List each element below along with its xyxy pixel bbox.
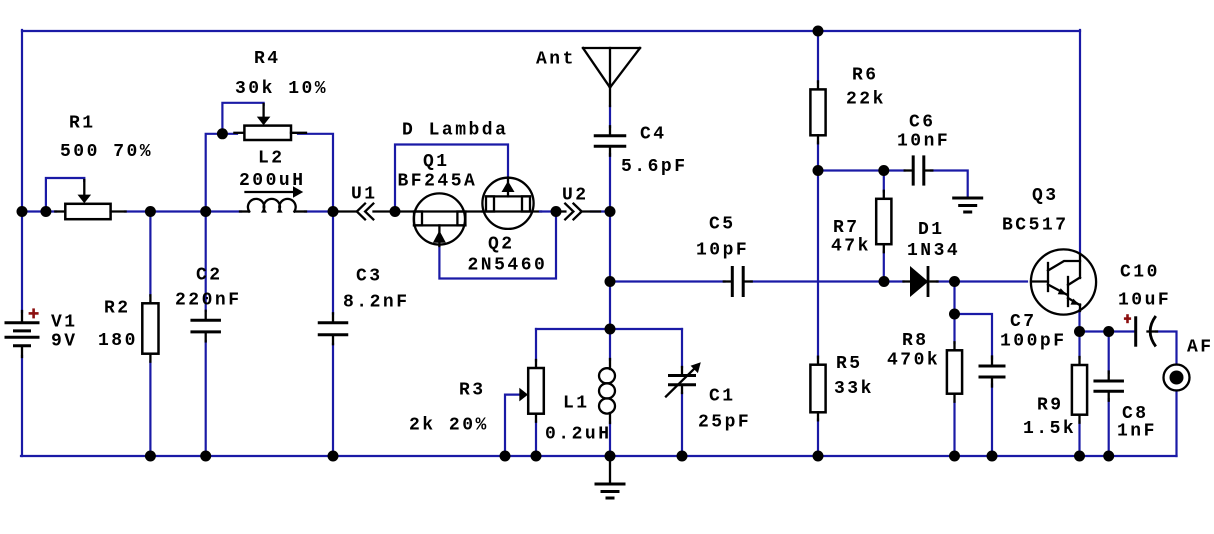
svg-text:200uH: 200uH: [239, 171, 306, 191]
wire left rail upper (V1 positive feed): [21, 30, 23, 312]
ground (L1/tank): [595, 456, 626, 498]
wire C8 bottom leg: [1108, 399, 1110, 456]
junction D1 cathode node: [949, 276, 960, 287]
resistor R7 body: [876, 191, 891, 252]
junction Q3 emitter / R9 node: [1074, 326, 1085, 337]
transistor Q2 2N5460 (P-JFET) circle: [482, 178, 533, 229]
transistor Q1 source arrow: [433, 225, 446, 246]
wire R3 wiper leg: [505, 395, 520, 456]
battery V1 plus polarity mark: [29, 308, 39, 318]
connector U1 leads: [335, 210, 395, 212]
svg-text:10nF: 10nF: [897, 132, 950, 152]
wire right rail to Q3 collector: [1079, 30, 1081, 254]
junction R2 top node: [145, 206, 156, 217]
wire C6 row from R6/R7 node: [818, 169, 905, 171]
potentiometer R1 wiper arrow: [78, 180, 92, 203]
wire R9 bottom leg: [1078, 422, 1080, 457]
wire C2 branch top: [205, 212, 207, 312]
wire tank node row R3-L1-C1: [536, 328, 682, 330]
junction bus / C8: [1103, 451, 1114, 462]
svg-text:25pF: 25pF: [698, 413, 751, 433]
transistor Q3 base lead: [1031, 280, 1048, 282]
svg-text:470k: 470k: [887, 351, 940, 371]
junction bus / C3: [328, 451, 339, 462]
junction bus / C7: [987, 451, 998, 462]
svg-text:R7: R7: [833, 218, 860, 238]
svg-text:C4: C4: [640, 125, 667, 145]
svg-text:10pF: 10pF: [696, 241, 749, 261]
wire C7 branch: [955, 314, 993, 359]
wire left rail lower (V1 negative to ground bus): [21, 356, 23, 456]
diode D1 1N34: [904, 266, 938, 297]
capacitor C4 plates: [594, 126, 627, 155]
wire bottom ground bus: [21, 455, 1177, 457]
svg-text:33k: 33k: [834, 379, 874, 399]
wire R8 bottom leg: [953, 402, 955, 457]
transistor Q2 gate arrow: [502, 178, 515, 197]
inductor L2 coil: [240, 199, 306, 212]
svg-text:L1: L1: [563, 394, 590, 414]
svg-text:1N34: 1N34: [907, 241, 960, 261]
capacitor C1 adjustment arrow: [666, 362, 701, 396]
wire R4 wiper loop: [222, 103, 263, 134]
wire C6 right lead to ground: [931, 171, 968, 197]
connector AF output jack: [1164, 365, 1190, 391]
junction bus / C1: [677, 451, 688, 462]
wire C10 to AF jack: [1156, 332, 1177, 365]
wire L1 bottom lead: [609, 423, 611, 457]
wire R9 top leg: [1078, 332, 1080, 358]
svg-text:10uF: 10uF: [1118, 291, 1171, 311]
resistor R2 body: [142, 295, 158, 361]
wire R2 branch top: [149, 212, 151, 296]
junction C5 tap node: [605, 276, 616, 287]
wire R4 right leg to main row: [298, 134, 333, 212]
junction antenna/main row node: [605, 206, 616, 217]
junction left rail / main row: [17, 206, 28, 217]
svg-text:U2: U2: [562, 186, 589, 206]
wire C1 bottom leg: [681, 393, 683, 456]
wire D1 cathode to Q3 base: [937, 280, 1027, 282]
svg-text:C7: C7: [1010, 312, 1037, 332]
junction D-Lambda input node: [390, 206, 401, 217]
transistor Q3 BC517 circle: [1031, 249, 1096, 314]
transistor Q3 second stage: [1068, 277, 1080, 306]
svg-text:L2: L2: [258, 149, 285, 169]
svg-text:220nF: 220nF: [175, 291, 242, 311]
connector U2 leads: [556, 210, 600, 212]
junction D-Lambda output node: [551, 206, 562, 217]
junction C2/R4 node: [200, 206, 211, 217]
svg-text:500 70%: 500 70%: [60, 142, 153, 162]
junction C6 row / R7 top: [878, 165, 889, 176]
wire R6 bottom / column through C5 row: [817, 143, 819, 358]
capacitor C3 plates: [318, 313, 349, 344]
svg-text:U1: U1: [351, 185, 378, 205]
wire C3 branch top: [332, 212, 334, 314]
wire R4 left leg from main row: [206, 134, 237, 210]
wire top supply bus: [22, 30, 1080, 32]
junction C3/R4 node: [328, 206, 339, 217]
svg-text:R9: R9: [1037, 396, 1064, 416]
capacitor C5 plates: [724, 266, 752, 297]
junction tank top node: [605, 324, 616, 335]
junction bus / R2: [145, 451, 156, 462]
wire R6 top leg from supply bus: [817, 31, 819, 82]
svg-text:1nF: 1nF: [1117, 422, 1157, 442]
svg-text:47k: 47k: [831, 237, 871, 257]
svg-text:Q1: Q1: [423, 152, 450, 172]
resistor R8 body: [947, 342, 962, 401]
junction R7/D1 node: [879, 276, 890, 287]
junction R1 wiper tie: [40, 206, 51, 217]
capacitor C1 (variable) plates: [668, 367, 696, 393]
wire C8 top leg: [1108, 332, 1110, 374]
resistor R5 body: [810, 357, 825, 421]
potentiometer R3 wiper arrow: [519, 388, 528, 402]
transistor Q2 gate/channel bars: [483, 196, 557, 211]
ground (C6 decoupling): [952, 198, 983, 212]
wire R1 wiper loop: [46, 178, 84, 212]
svg-text:1.5k: 1.5k: [1023, 419, 1076, 439]
junction R8/C7 split node: [949, 309, 960, 320]
transistor Q1 gate/channel bars: [395, 212, 483, 226]
junction R4 wiper tie: [217, 128, 228, 139]
wire net: Q1 gate to output node: [439, 212, 556, 279]
connector U1 chevrons: [357, 204, 374, 220]
wire C5 left lead from antenna column: [610, 280, 725, 282]
svg-text:R6: R6: [852, 66, 879, 86]
svg-text:C10: C10: [1120, 263, 1160, 283]
junction R6/C6 node: [813, 165, 824, 176]
wire R7 bottom leg: [883, 252, 885, 282]
potentiometer R4 wiper arrow: [257, 104, 271, 125]
svg-text:30k 10%: 30k 10%: [235, 79, 328, 99]
battery V1 9V: [5, 311, 40, 357]
potentiometer R4 body: [234, 126, 306, 140]
svg-text:R4: R4: [254, 49, 281, 69]
svg-text:C2: C2: [196, 266, 223, 286]
potentiometer R1 body: [55, 204, 125, 219]
wire Q3 emitter lead: [1078, 310, 1080, 332]
svg-text:R3: R3: [459, 381, 486, 401]
svg-text:BF245A: BF245A: [398, 172, 478, 192]
connector U2 chevrons: [565, 204, 582, 220]
junction supply bus / R6 column: [813, 26, 824, 37]
wire C2 branch bottom: [205, 341, 207, 456]
resistor R9 body: [1072, 357, 1087, 423]
svg-text:9V: 9V: [51, 332, 78, 352]
svg-text:BC517: BC517: [1002, 216, 1069, 236]
junction emitter row / C8 node: [1103, 326, 1114, 337]
wire C5 right lead to D1 node: [751, 280, 904, 282]
wire R2 branch bottom: [149, 362, 151, 457]
svg-text:C3: C3: [356, 267, 383, 287]
svg-text:D1: D1: [918, 220, 945, 240]
svg-text:C6: C6: [909, 113, 936, 133]
capacitor C10 plus polarity mark: [1124, 314, 1131, 323]
wire main row: left rail to R1: [21, 210, 56, 212]
svg-text:Q3: Q3: [1032, 186, 1059, 206]
junction bus / R3 wiper: [500, 451, 511, 462]
potentiometer R3 body: [528, 360, 544, 422]
wire C3 branch bottom: [332, 344, 334, 456]
wire net: input node to Q2 gate (D Lambda box): [395, 145, 508, 212]
svg-text:AF: AF: [1187, 338, 1214, 358]
svg-text:22k: 22k: [846, 90, 886, 110]
svg-text:D Lambda: D Lambda: [402, 121, 508, 141]
wire R3 bottom leg: [535, 422, 537, 457]
inductor L2 current arrow: [246, 186, 304, 198]
junction bus / R3: [531, 451, 542, 462]
transistor Q1 BF245A (N-JFET) circle: [414, 193, 465, 244]
capacitor C10 (polarized): [1136, 316, 1157, 347]
capacitor C7 plates: [979, 357, 1006, 387]
svg-text:R8: R8: [902, 331, 929, 351]
svg-text:Ant: Ant: [536, 50, 576, 70]
capacitor C6 plates: [905, 155, 933, 185]
wire R5 bottom leg: [817, 420, 819, 457]
wire R7 top leg: [883, 171, 885, 192]
svg-text:180: 180: [98, 331, 138, 351]
capacitor C2 plates: [190, 311, 221, 342]
junction bus / R8: [949, 451, 960, 462]
svg-text:Q2: Q2: [488, 235, 515, 255]
transistor Q3 collector/emitter stems: [1079, 254, 1081, 311]
wire C7 bottom leg: [991, 385, 993, 457]
svg-text:C1: C1: [709, 387, 736, 407]
svg-text:V1: V1: [51, 313, 78, 333]
antenna symbol: [583, 48, 640, 106]
svg-text:5.6pF: 5.6pF: [621, 157, 688, 177]
wire C4 to main row / C5 node / tank node: [609, 154, 611, 360]
resistor R6 body: [810, 81, 825, 143]
svg-text:100pF: 100pF: [1000, 332, 1067, 352]
junction bus / C2: [200, 451, 211, 462]
wire C1 top leg: [681, 329, 683, 367]
svg-text:2k 20%: 2k 20%: [409, 416, 489, 436]
junction bus / R9: [1074, 451, 1085, 462]
transistor Q3 first stage: [1048, 261, 1080, 295]
svg-text:R5: R5: [836, 354, 863, 374]
junction bus / L1 ground: [605, 451, 616, 462]
svg-text:R2: R2: [104, 299, 131, 319]
svg-text:2N5460: 2N5460: [468, 256, 548, 276]
svg-text:C5: C5: [709, 215, 736, 235]
wire main row: U2 right lead to antenna node: [591, 210, 611, 212]
svg-text:8.2nF: 8.2nF: [343, 293, 410, 313]
wire main row: R1 to L2 section: [125, 210, 241, 212]
capacitor C8 plates: [1093, 372, 1124, 401]
inductor L1 coil: [599, 359, 615, 423]
wire emitter node to C10: [1080, 330, 1135, 332]
junction bus / R5: [813, 451, 824, 462]
wire main row: L2 right to C3 node: [305, 210, 338, 212]
svg-text:0.2uH: 0.2uH: [545, 425, 612, 445]
wire AF jack bottom leg: [1175, 391, 1177, 457]
wire R3 top leg: [535, 329, 537, 361]
wire detector node down to R8/C7 split: [953, 282, 955, 344]
svg-text:R1: R1: [69, 114, 96, 134]
wire antenna lead to C4: [609, 106, 611, 127]
